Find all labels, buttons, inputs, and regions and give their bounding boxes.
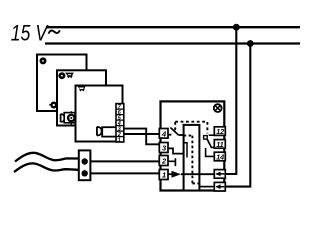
mechanical link (dashed) into A1 — [184, 135, 193, 137]
svg-text:12: 12 — [216, 127, 224, 136]
wire X2 to terminal 1 — [90, 172, 159, 174]
mechanical link (dashed) inside A1 — [191, 136, 193, 184]
stub terminal 11 — [211, 146, 214, 148]
cable W2 (wavy) — [14, 163, 79, 172]
mechanism box A1 — [184, 125, 200, 191]
bell symbol card U2 — [65, 73, 74, 79]
card U1 (front door station) — [76, 86, 123, 142]
terminal 12 — [214, 127, 225, 136]
wire L1 down to terminal a — [225, 27, 236, 174]
buzzer symbol card U3 (partly hidden) — [49, 103, 56, 108]
wire strip to terminal 3 — [124, 129, 160, 145]
mechanical link (dashed) right drop — [206, 122, 208, 133]
wire terminal 14 — [206, 148, 215, 157]
svg-text:4: 4 — [161, 129, 167, 138]
mechanical link (dashed) top — [175, 121, 207, 123]
mechanical link (dashed) bottom exit — [192, 182, 199, 184]
svg-text:2: 2 — [161, 157, 167, 166]
pushbutton symbol card U3 — [41, 59, 45, 63]
terminal b (supply) — [214, 182, 225, 191]
bell symbol card U1 — [77, 86, 86, 92]
wire X2 to terminal 2 — [90, 160, 159, 162]
terminal dot X2.2 — [82, 170, 88, 176]
svg-text:1: 1 — [162, 171, 166, 180]
terminal 4 — [159, 129, 168, 139]
wire terminal 2 stub — [168, 158, 176, 166]
junction dot on L1 — [233, 24, 240, 31]
cable W1 (wavy) — [15, 153, 79, 162]
buzzer symbol card U1 — [97, 127, 116, 137]
card U2 (middle door station) — [57, 70, 106, 125]
terminal 11 — [214, 140, 225, 149]
wire terminal 3 to A1 — [168, 148, 184, 153]
buzzer symbol card U2 — [61, 111, 75, 125]
svg-text:11: 11 — [216, 140, 223, 149]
mechanical link (dashed) left drop — [174, 122, 176, 131]
pushbutton symbol card U2 — [60, 74, 64, 78]
svg-text:14: 14 — [216, 152, 224, 161]
diode V1 at terminal 1 — [168, 173, 172, 175]
svg-text:15 V: 15 V — [11, 21, 49, 46]
terminal 1 — [159, 170, 168, 180]
stub terminal 12 — [209, 134, 215, 136]
wire L2 supply line bottom — [45, 42, 300, 44]
terminal dot X2.1 — [82, 158, 88, 164]
wire L1 supply line top — [46, 26, 300, 28]
terminal a (supply) — [214, 170, 225, 179]
wire terminal 1 to supply arrow — [181, 173, 215, 175]
wire strip to terminal 4 — [124, 133, 160, 135]
changeover contact K1.1 — [204, 136, 208, 140]
module K1 outer box — [161, 101, 225, 190]
wire A1 to supply arrow 2 — [199, 186, 214, 188]
terminal strip X1 on card U1 — [116, 104, 124, 144]
svg-text:1: 1 — [118, 138, 121, 144]
junction dot on L2 — [247, 40, 254, 47]
terminal 3 — [159, 143, 168, 153]
terminal 2 — [159, 156, 168, 166]
switch S1 at terminal 4 — [168, 134, 172, 136]
card U3 (back door station) — [37, 55, 87, 112]
lamp H1 — [214, 104, 222, 112]
junction box X2 — [79, 150, 91, 180]
wire L2 down to terminal b — [225, 44, 250, 187]
latch hook — [184, 143, 187, 158]
terminal 14 — [214, 152, 225, 161]
